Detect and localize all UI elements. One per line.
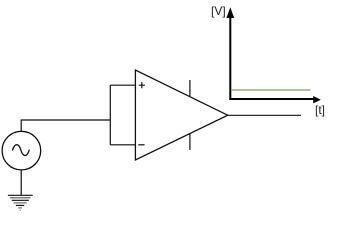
wire source top to op-amp input node — [21, 120, 110, 131]
AC source sine symbol — [13, 145, 30, 156]
output wire — [228, 114, 301, 116]
green output level trace — [231, 89, 311, 91]
axis label [V] — [211, 4, 226, 18]
graph vertical axis arrowhead — [226, 7, 234, 18]
wire to inverting input — [110, 144, 135, 146]
graph horizontal axis t — [229, 98, 313, 100]
graph horizontal axis arrowhead — [313, 96, 321, 103]
op-amp minus input label — [138, 144, 144, 146]
wire source bottom to ground — [20, 170, 22, 195]
AC source V1 circle — [2, 131, 41, 170]
axis label [t] — [315, 103, 325, 117]
wire to non-inverting input — [110, 84, 135, 86]
negative supply pin — [189, 134, 191, 151]
graph vertical axis V — [229, 17, 231, 99]
op-amp U1 triangle — [135, 70, 227, 160]
positive supply pin — [189, 80, 191, 97]
input bracket vertical wire — [109, 85, 111, 145]
ground — [8, 195, 33, 210]
op-amp plus input label — [139, 82, 145, 88]
